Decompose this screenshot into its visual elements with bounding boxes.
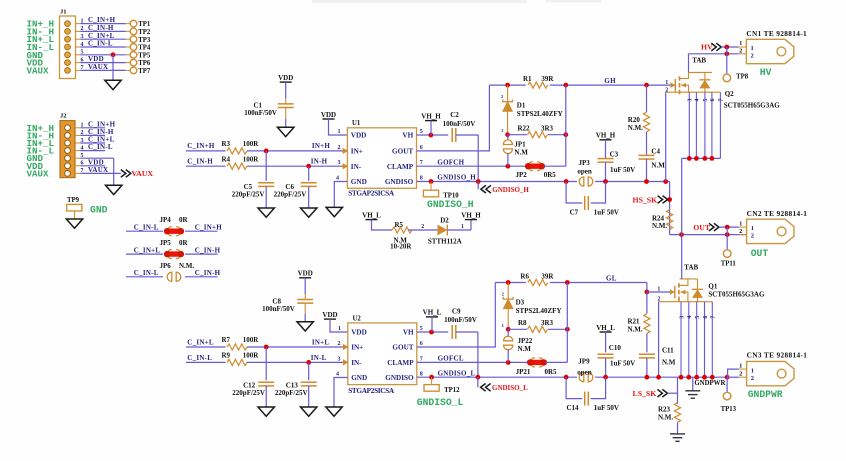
svg-text:220pF/25V: 220pF/25V	[275, 389, 308, 397]
svg-text:D2: D2	[440, 217, 449, 225]
junction Q2 source pin	[703, 156, 708, 161]
testpoint TP4 pad	[130, 44, 137, 51]
wire CLAMP GOFCL row	[417, 361, 528, 363]
svg-text:1: 1	[751, 225, 754, 232]
wire OUT to CN2 pin1	[719, 226, 739, 228]
ground C8	[297, 322, 313, 331]
svg-text:R6: R6	[520, 273, 529, 281]
svg-text:C_IN-L: C_IN-L	[88, 40, 113, 48]
ground C1	[278, 127, 294, 136]
svg-text:TP6: TP6	[138, 60, 151, 67]
svg-text:TP11: TP11	[721, 260, 737, 267]
connector CN3 TE 928814-1	[747, 361, 794, 385]
CN2 pin1 stub	[739, 226, 747, 228]
resistor R1	[528, 82, 548, 88]
svg-text:D1: D1	[517, 101, 526, 109]
wire riser R1/R22/JP2	[565, 85, 567, 166]
svg-text:C_IN+L: C_IN+L	[88, 32, 115, 40]
svg-text:LS_SK: LS_SK	[633, 389, 657, 398]
transistor Q1 SCT055H65G3AG	[659, 279, 713, 302]
svg-text:39R: 39R	[541, 273, 554, 281]
svg-text:R20: R20	[628, 116, 641, 124]
svg-text:GNDISO: GNDISO	[385, 178, 414, 186]
wire to R22	[508, 134, 527, 136]
svg-text:100R: 100R	[243, 352, 259, 360]
junction HS_SK	[667, 197, 672, 202]
wire jog to CN3 pin1	[728, 369, 739, 377]
junction R22 / riser	[563, 132, 568, 137]
junction TAB pin2	[724, 51, 729, 56]
svg-text:OUT: OUT	[751, 248, 769, 259]
C13 to ground	[308, 386, 310, 407]
svg-text:220pF/25V: 220pF/25V	[232, 191, 265, 199]
off-page connector LS_SK chevron	[657, 389, 667, 397]
junction IN+L / C12	[264, 345, 269, 350]
svg-text:IN+L: IN+L	[312, 338, 330, 346]
wire C9 right	[456, 331, 478, 333]
svg-text:IN-H: IN-H	[311, 158, 328, 166]
wire J1 pin 4 to TP4	[81, 46, 126, 48]
testpoint TP12 pad	[424, 385, 439, 392]
svg-text:VH_L: VH_L	[362, 211, 381, 219]
svg-text:1: 1	[751, 367, 754, 374]
svg-text:6: 6	[420, 341, 423, 347]
svg-text:GND: GND	[351, 178, 367, 186]
svg-text:IN+: IN+	[351, 148, 363, 156]
svg-text:TP8: TP8	[736, 74, 749, 81]
svg-text:VDD: VDD	[351, 329, 367, 337]
wire Q2 source to GNDISO_H	[665, 92, 667, 181]
svg-text:VAUX: VAUX	[27, 65, 50, 76]
wire C7 left leg	[566, 182, 582, 204]
capacitor C7	[584, 196, 586, 210]
svg-text:SCT055H65G3AG: SCT055H65G3AG	[708, 290, 765, 298]
ground TP9	[66, 219, 82, 228]
svg-text:6: 6	[703, 316, 709, 319]
svg-text:TP9: TP9	[67, 197, 80, 204]
junction IN-H / C6	[306, 164, 311, 169]
svg-text:VDD: VDD	[88, 55, 104, 63]
svg-text:JP4: JP4	[160, 216, 172, 224]
svg-text:N.M.: N.M.	[652, 222, 667, 230]
VH_H to C3	[605, 140, 607, 159]
off-page connector GNDISO_H chevron	[481, 185, 491, 193]
svg-text:4: 4	[336, 176, 339, 182]
svg-text:1: 1	[338, 129, 341, 135]
svg-text:2: 2	[338, 341, 341, 347]
wire riser R6/R8/JP21	[566, 283, 568, 363]
ground U1 pin4	[326, 207, 342, 216]
svg-text:VH_H: VH_H	[596, 132, 616, 140]
svg-text:VAUX: VAUX	[88, 63, 108, 71]
VH_L stem	[431, 317, 433, 332]
svg-text:VH_H: VH_H	[461, 211, 481, 219]
svg-text:OUT: OUT	[693, 223, 711, 232]
svg-text:GNDISO_H: GNDISO_H	[427, 199, 474, 210]
junction Q2 source pin	[687, 156, 692, 161]
wire down to TP11	[726, 227, 728, 249]
svg-text:100nF/50V: 100nF/50V	[443, 120, 476, 128]
diode D2 STTH112A	[438, 225, 448, 236]
U2 pin names	[351, 329, 414, 383]
svg-text:CLAMP: CLAMP	[387, 359, 414, 367]
junction Q1 source pin / GNDPWR	[686, 375, 691, 380]
svg-text:1: 1	[739, 363, 742, 369]
svg-text:1: 1	[739, 221, 742, 227]
ground J2	[106, 185, 122, 194]
svg-text:GNDISO: GNDISO	[385, 374, 414, 382]
wire C2 down to GNDISO_H	[477, 135, 479, 182]
svg-text:VDD: VDD	[278, 74, 293, 82]
svg-text:1: 1	[751, 45, 754, 52]
ground J1	[105, 80, 121, 89]
svg-text:7: 7	[81, 65, 84, 71]
svg-text:VAUX: VAUX	[27, 168, 50, 179]
svg-text:TAB: TAB	[692, 56, 706, 64]
wire GNDISO_H row left	[417, 181, 578, 183]
svg-text:7: 7	[420, 160, 423, 166]
wire Q1 drain to OUT node	[681, 235, 683, 279]
wire GL row left of R6	[495, 282, 526, 284]
svg-text:100R: 100R	[243, 140, 259, 148]
svg-text:5: 5	[695, 316, 701, 319]
svg-text:3: 3	[81, 34, 84, 40]
JP22 bottom stub	[507, 350, 509, 363]
svg-text:7: 7	[719, 99, 725, 102]
wire GNDISO_H down to OUT	[669, 182, 671, 235]
earth ground GNDPWR	[685, 391, 700, 398]
svg-text:2: 2	[739, 371, 742, 377]
junction C7 left	[564, 179, 569, 184]
jumper JP21 closed 0R5	[527, 358, 547, 367]
resistor R23	[674, 403, 680, 423]
testpoint TP9 pad	[67, 204, 82, 211]
svg-text:Q1: Q1	[708, 282, 717, 290]
svg-text:VDD: VDD	[298, 270, 313, 278]
wire U1 GND pin4	[334, 182, 347, 208]
capacitor C11	[639, 353, 655, 355]
svg-text:C_IN+L: C_IN+L	[187, 338, 214, 346]
junction C2/GNDISO_H	[476, 179, 481, 184]
svg-text:7: 7	[420, 356, 423, 362]
transistor Q2 SCT055H65G3AG	[666, 72, 720, 94]
svg-text:GNDISO_L: GNDISO_L	[438, 369, 476, 377]
wire J1 pin 5 to TP5	[81, 54, 126, 56]
wire C_IN+H to R3	[186, 150, 226, 152]
wire C14 left leg	[566, 377, 582, 398]
svg-text:JP9: JP9	[578, 358, 590, 366]
wire J2 pin 3 stub	[81, 142, 106, 144]
svg-text:220pF/25V: 220pF/25V	[274, 191, 307, 199]
svg-text:C10: C10	[609, 344, 622, 352]
svg-text:C_IN+L: C_IN+L	[134, 247, 161, 255]
junction C4 / GNDISO_H	[644, 179, 649, 184]
resistor R4	[227, 163, 247, 169]
junction Q1 source / GNDPWR	[656, 375, 661, 380]
svg-text:IN-: IN-	[351, 163, 362, 171]
svg-text:STGAP2SICSA: STGAP2SICSA	[348, 386, 395, 395]
wire GNDISO_L row right	[595, 376, 728, 378]
wire R3 to U1 IN+	[247, 150, 347, 152]
junction C10 / row	[603, 375, 608, 380]
input arrow U2 IN+	[343, 344, 348, 349]
svg-text:N.M: N.M	[651, 162, 665, 170]
svg-text:100R: 100R	[243, 336, 259, 344]
wire R7 to U2 IN+	[247, 346, 348, 348]
svg-text:JP2: JP2	[516, 171, 528, 179]
svg-text:VDD: VDD	[351, 132, 367, 140]
junction C9/GNDISO_L	[476, 375, 481, 380]
svg-text:N.M.: N.M.	[658, 413, 673, 421]
svg-text:VH_H: VH_H	[421, 112, 441, 120]
junction D1 / R22 / JP1	[505, 132, 510, 137]
wire C_IN-L to R9	[186, 361, 226, 363]
svg-text:TP5: TP5	[138, 52, 151, 59]
junction IN-L / C13	[306, 360, 311, 365]
svg-text:TP2: TP2	[138, 29, 151, 36]
D3 top lead	[507, 283, 509, 300]
junction Q1 source pin / GNDPWR	[710, 375, 715, 380]
svg-text:GNDISO_L: GNDISO_L	[417, 397, 464, 408]
JP1 top stub	[507, 135, 509, 141]
junction CN3 / TP13	[725, 375, 730, 380]
wire left of JP6	[126, 276, 163, 278]
wire GNDISO_L row left	[417, 376, 577, 378]
jumper JP1 open	[503, 140, 512, 154]
svg-text:TP12: TP12	[444, 387, 460, 394]
testpoint TP13 pad	[723, 392, 731, 400]
wire to Q1 gate	[647, 291, 675, 293]
resistor R6	[528, 279, 548, 285]
svg-text:R5: R5	[395, 221, 404, 229]
wire LS_SK stub	[667, 392, 677, 394]
testpoint TP10 pad	[423, 190, 438, 197]
svg-text:C_IN-H: C_IN-H	[195, 247, 221, 255]
testpoint TP5 pad	[130, 52, 137, 59]
svg-text:1: 1	[461, 224, 464, 230]
jumper JP3 open	[579, 177, 593, 186]
TP9 stub	[74, 211, 76, 219]
svg-text:IN-L: IN-L	[311, 354, 327, 362]
svg-text:TP7: TP7	[138, 68, 151, 75]
svg-text:1: 1	[665, 80, 668, 86]
wire left of JP5	[126, 253, 163, 255]
jumper JP2 closed 0R5	[525, 162, 545, 171]
svg-text:C_IN-H: C_IN-H	[195, 269, 221, 277]
svg-text:CN1 TE 928814-1: CN1 TE 928814-1	[746, 29, 807, 38]
wire R4 to U1 IN-	[247, 165, 347, 167]
wire J1 pin 7 to TP7	[81, 69, 126, 71]
junction VH_H	[429, 133, 434, 138]
testpoint TP7 pad	[130, 67, 137, 74]
junction GH / R20	[644, 83, 649, 88]
svg-text:open: open	[577, 167, 592, 175]
svg-text:C7: C7	[570, 208, 579, 216]
junction GOFCH / JP1	[506, 164, 511, 169]
diode D1 STPS2L40ZFY	[503, 99, 513, 111]
svg-text:3: 3	[679, 316, 685, 319]
svg-text:CLAMP: CLAMP	[387, 163, 414, 171]
wire J2 GND down	[113, 158, 115, 185]
svg-text:Q2: Q2	[725, 90, 734, 98]
wire to R8	[508, 328, 527, 330]
J2 green port names	[27, 123, 55, 180]
off-page connector VAUX chevron	[121, 170, 131, 178]
svg-text:8: 8	[420, 176, 423, 182]
junction R1 right	[563, 83, 568, 88]
CN2 pin2 stub	[739, 234, 747, 236]
svg-text:GNDPWR: GNDPWR	[748, 389, 783, 400]
op-amp U2 gate driver STGAP2SICSA body	[348, 323, 417, 385]
svg-text:GNDISO_H: GNDISO_H	[492, 186, 529, 194]
junction OUT / Q1 drain	[679, 232, 684, 237]
connector CN1 TE 928814-1	[746, 39, 793, 63]
svg-text:C14: C14	[567, 404, 580, 412]
svg-text:TAB: TAB	[684, 264, 698, 272]
U1 pin names	[351, 132, 414, 187]
svg-text:N.M: N.M	[514, 148, 528, 156]
svg-text:3: 3	[338, 356, 341, 362]
capacitor C13	[301, 381, 317, 383]
svg-text:C2: C2	[450, 111, 459, 119]
svg-text:J2: J2	[60, 113, 67, 120]
svg-text:JP6: JP6	[160, 262, 172, 270]
power symbol VDD above C8	[298, 270, 313, 278]
JP1 bottom stub	[507, 153, 509, 166]
svg-text:100nF/50V: 100nF/50V	[262, 305, 295, 313]
wire R9 to U2 IN-	[247, 361, 348, 363]
wire down to TP8	[726, 47, 728, 74]
off-page connector HV chevron	[711, 43, 721, 51]
wire JP2 to riser	[544, 165, 566, 167]
testpoint TP2 pad	[130, 28, 137, 35]
diode D3 STPS2L40ZFY	[503, 297, 513, 309]
wire right of JP4	[185, 230, 218, 232]
svg-text:C3: C3	[610, 150, 619, 158]
wire left of JP4	[126, 230, 163, 232]
resistor R20	[643, 112, 649, 132]
wire C7 right leg	[591, 182, 606, 204]
gate input arrow Q1	[670, 290, 674, 294]
jumper JP22 open	[504, 336, 513, 350]
svg-text:SCT055H65G3AG: SCT055H65G3AG	[724, 102, 781, 110]
CN1 pin1 stub	[739, 46, 747, 48]
junction GL / R21	[645, 290, 650, 295]
ground C5	[258, 208, 274, 217]
ground C6	[301, 208, 317, 217]
svg-text:1: 1	[338, 326, 341, 332]
testpoint TP8 pad	[723, 74, 731, 82]
wire VDD to C8	[304, 278, 306, 294]
junction C14 left	[564, 375, 569, 380]
resistor R9	[227, 359, 247, 365]
wire Q2 source bus	[682, 157, 721, 159]
wire C2 right	[456, 134, 478, 136]
svg-text:0R: 0R	[179, 216, 189, 224]
CN1 pin2 stub	[739, 53, 747, 55]
wire J2 pin 4 stub	[81, 150, 106, 152]
svg-text:4: 4	[336, 372, 339, 378]
Q1 body diode	[692, 279, 703, 302]
svg-text:4: 4	[695, 99, 701, 102]
wire VH_L to R5	[372, 220, 393, 230]
wire CLAMP GOFCH row	[417, 165, 527, 167]
junction R8 / riser	[565, 327, 570, 332]
D1 top lead	[507, 85, 509, 102]
wire U2 GND pin4	[334, 378, 348, 408]
svg-text:STTH112A: STTH112A	[428, 237, 462, 245]
wire TAB to CN1 pin2	[689, 53, 739, 55]
connector CN2 TE 928814-1	[747, 219, 794, 243]
off-page connector HS_SK chevron	[658, 196, 668, 204]
wire C_IN+L to R7	[186, 346, 226, 348]
svg-text:IN-: IN-	[351, 359, 362, 367]
power symbol VH_H middle	[461, 211, 481, 219]
stub to earth ground	[692, 377, 694, 390]
C3 to GNDISO_H row	[605, 162, 607, 181]
capacitor C10	[598, 353, 614, 355]
svg-text:1uF 50V: 1uF 50V	[610, 360, 635, 368]
svg-text:N.M.: N.M.	[628, 124, 643, 132]
svg-text:R9: R9	[222, 352, 231, 360]
Q2 source pins 3-7	[688, 92, 725, 158]
svg-text:2: 2	[739, 229, 742, 235]
capacitor C1	[278, 103, 294, 105]
D3 bottom lead	[507, 309, 509, 330]
Q2 body diode	[699, 72, 710, 92]
wire GH row to Q2 gate	[550, 84, 676, 86]
svg-text:2: 2	[751, 375, 754, 382]
resistor R21	[644, 314, 650, 334]
svg-text:C4: C4	[651, 147, 660, 155]
wire VDD to C1	[285, 82, 287, 98]
wire J1 pin 3 to TP3	[81, 38, 126, 40]
C1 lower lead	[285, 108, 287, 120]
wire Q2 drain to TAB node	[688, 54, 690, 73]
capacitor C12	[258, 381, 274, 383]
svg-text:GOFCL: GOFCL	[438, 355, 464, 363]
wire up to VH_H	[470, 220, 472, 230]
capacitor C9	[451, 325, 453, 339]
svg-text:100R: 100R	[243, 155, 259, 163]
testpoint TP3 pad	[130, 36, 137, 43]
svg-text:GND: GND	[351, 374, 367, 382]
power symbol VDD at U1 pin1	[321, 111, 336, 119]
svg-text:GOFCH: GOFCH	[437, 158, 464, 166]
wire C4 to GNDISO_H row	[646, 159, 648, 182]
testpoint TP1 pad	[130, 20, 137, 27]
svg-text:HV: HV	[760, 67, 772, 78]
svg-text:IN+: IN+	[351, 344, 363, 352]
svg-text:VH_L: VH_L	[423, 309, 442, 317]
TP10 stub	[430, 182, 432, 191]
earth ground R23	[670, 434, 685, 441]
wire C9 down to GNDISO_L	[477, 332, 479, 377]
junction TP12	[429, 375, 434, 380]
wire R23 to ground	[677, 423, 679, 434]
wire down to R21	[646, 292, 648, 314]
wire GH row left of R1	[489, 84, 525, 86]
junction J1 GND node	[111, 52, 116, 57]
testpoint TP6 pad	[130, 59, 137, 66]
wire to C13	[308, 362, 310, 380]
junction Q2 source pin	[694, 156, 699, 161]
wire R8 right	[548, 328, 567, 330]
wire GNDPWR down to R23	[677, 377, 679, 404]
svg-text:CN3 TE 928814-1: CN3 TE 928814-1	[747, 350, 808, 359]
capacitor C4	[639, 154, 655, 156]
svg-text:C_IN-H: C_IN-H	[88, 24, 114, 32]
